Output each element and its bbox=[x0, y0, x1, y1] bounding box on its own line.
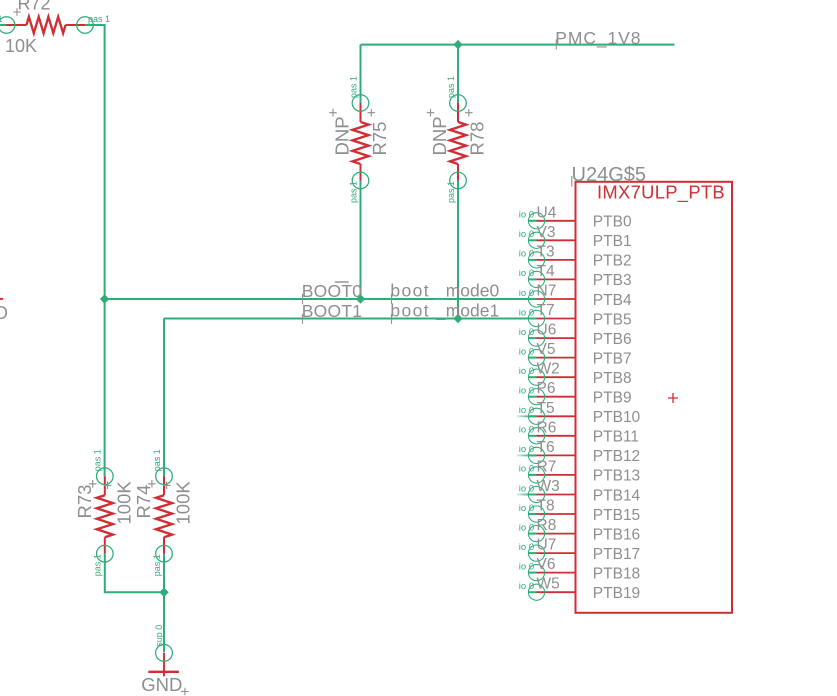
svg-text:R6: R6 bbox=[537, 419, 557, 436]
svg-text:PTB3: PTB3 bbox=[593, 272, 632, 289]
svg-text:N7: N7 bbox=[537, 283, 557, 300]
svg-text:PTB0: PTB0 bbox=[593, 214, 632, 231]
svg-text:io 0: io 0 bbox=[519, 405, 534, 416]
svg-text:PTB18: PTB18 bbox=[593, 565, 640, 582]
svg-text:PTB9: PTB9 bbox=[593, 390, 632, 407]
svg-text:io 0: io 0 bbox=[519, 425, 534, 436]
svg-text:boot_mode1: boot_mode1 bbox=[390, 300, 499, 321]
svg-text:sup 0: sup 0 bbox=[154, 625, 164, 647]
svg-text:pas 1: pas 1 bbox=[446, 181, 456, 203]
svg-text:io 0: io 0 bbox=[519, 503, 534, 514]
svg-text:pas 1: pas 1 bbox=[348, 76, 358, 98]
svg-text:PTB6: PTB6 bbox=[593, 331, 632, 348]
svg-text:io 0: io 0 bbox=[519, 444, 534, 455]
svg-text:T3: T3 bbox=[537, 243, 555, 260]
svg-text:R78: R78 bbox=[467, 122, 488, 156]
svg-text:PTB7: PTB7 bbox=[593, 350, 632, 367]
svg-text:PTB19: PTB19 bbox=[593, 585, 640, 602]
svg-text:boot_mode0: boot_mode0 bbox=[390, 281, 499, 302]
svg-text:io 0: io 0 bbox=[519, 327, 534, 338]
svg-text:DNP: DNP bbox=[429, 116, 450, 155]
svg-text:PTB1: PTB1 bbox=[593, 233, 632, 250]
svg-text:io 0: io 0 bbox=[519, 210, 534, 221]
svg-text:T7: T7 bbox=[537, 302, 555, 319]
svg-text:pas 1: pas 1 bbox=[0, 14, 3, 24]
svg-text:100K: 100K bbox=[113, 481, 134, 525]
svg-text:io 0: io 0 bbox=[519, 346, 534, 357]
svg-text:io 0: io 0 bbox=[519, 386, 534, 397]
svg-text:DNP: DNP bbox=[332, 116, 353, 155]
svg-text:W5: W5 bbox=[537, 576, 560, 593]
svg-text:O: O bbox=[0, 303, 8, 323]
svg-text:T5: T5 bbox=[537, 400, 555, 417]
svg-text:PTB8: PTB8 bbox=[593, 370, 632, 387]
svg-text:R72: R72 bbox=[18, 0, 51, 14]
svg-text:io 0: io 0 bbox=[519, 229, 534, 240]
svg-text:R8: R8 bbox=[537, 517, 557, 534]
svg-text:R73: R73 bbox=[74, 485, 95, 519]
svg-text:T6: T6 bbox=[537, 439, 555, 456]
svg-text:GND: GND bbox=[141, 674, 182, 695]
svg-text:PTB16: PTB16 bbox=[593, 526, 640, 543]
svg-text:T4: T4 bbox=[537, 263, 555, 280]
svg-text:R7: R7 bbox=[537, 458, 557, 475]
svg-text:io 0: io 0 bbox=[519, 366, 534, 377]
svg-text:pas 1: pas 1 bbox=[93, 554, 103, 576]
svg-text:PTB11: PTB11 bbox=[593, 429, 639, 446]
svg-text:io 0: io 0 bbox=[519, 581, 534, 592]
svg-text:V5: V5 bbox=[537, 341, 556, 358]
svg-text:io 0: io 0 bbox=[519, 522, 534, 533]
svg-text:R74: R74 bbox=[133, 485, 154, 519]
svg-text:PTB12: PTB12 bbox=[593, 448, 640, 465]
svg-text:io 0: io 0 bbox=[519, 483, 534, 494]
svg-text:pas 1: pas 1 bbox=[88, 14, 110, 24]
svg-text:pas 1: pas 1 bbox=[152, 554, 162, 576]
svg-text:PTB15: PTB15 bbox=[593, 507, 640, 524]
svg-text:W2: W2 bbox=[537, 361, 560, 378]
svg-text:PTB17: PTB17 bbox=[593, 546, 640, 563]
svg-text:io 0: io 0 bbox=[519, 268, 534, 279]
svg-text:R75: R75 bbox=[369, 122, 390, 156]
svg-text:T8: T8 bbox=[537, 498, 555, 515]
svg-text:10K: 10K bbox=[5, 36, 37, 56]
svg-text:io 0: io 0 bbox=[519, 307, 534, 318]
svg-text:PMC_1V8: PMC_1V8 bbox=[555, 28, 641, 49]
svg-text:BOOT1: BOOT1 bbox=[302, 301, 363, 321]
svg-text:io 0: io 0 bbox=[519, 542, 534, 553]
svg-text:U4: U4 bbox=[537, 204, 557, 221]
svg-text:IMX7ULP_PTB: IMX7ULP_PTB bbox=[597, 181, 725, 203]
svg-text:PTB13: PTB13 bbox=[593, 468, 640, 485]
svg-text:W3: W3 bbox=[537, 478, 560, 495]
svg-text:PTB4: PTB4 bbox=[593, 292, 632, 309]
svg-text:PTB10: PTB10 bbox=[593, 409, 641, 426]
svg-text:V3: V3 bbox=[537, 224, 556, 241]
svg-text:io 0: io 0 bbox=[519, 288, 534, 299]
svg-text:io 0: io 0 bbox=[519, 561, 534, 572]
svg-text:pas 1: pas 1 bbox=[446, 76, 456, 98]
svg-text:PTB14: PTB14 bbox=[593, 487, 641, 504]
svg-text:V6: V6 bbox=[537, 556, 556, 573]
svg-text:PTB2: PTB2 bbox=[593, 253, 632, 270]
svg-text:pas 1: pas 1 bbox=[348, 181, 358, 203]
svg-text:P6: P6 bbox=[537, 380, 556, 397]
svg-text:U7: U7 bbox=[537, 537, 557, 554]
svg-text:io 0: io 0 bbox=[519, 249, 534, 260]
svg-text:100K: 100K bbox=[173, 481, 194, 525]
svg-text:pas 1: pas 1 bbox=[93, 449, 103, 471]
svg-text:pas 1: pas 1 bbox=[152, 449, 162, 471]
svg-text:BOOT0: BOOT0 bbox=[302, 281, 363, 301]
svg-text:io 0: io 0 bbox=[519, 464, 534, 475]
svg-text:U6: U6 bbox=[537, 322, 557, 339]
svg-text:PTB5: PTB5 bbox=[593, 311, 632, 328]
